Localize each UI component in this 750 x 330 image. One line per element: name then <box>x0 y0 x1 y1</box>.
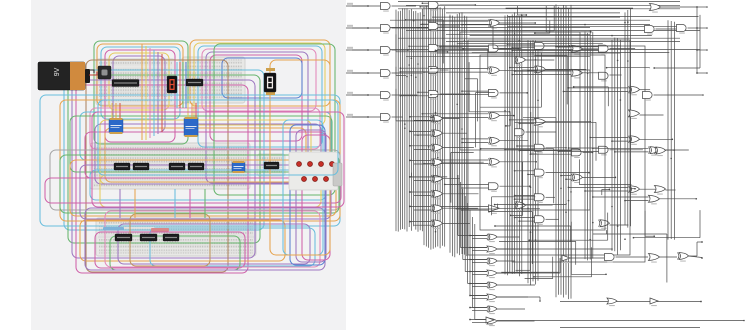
svg-text:9V: 9V <box>54 67 61 76</box>
